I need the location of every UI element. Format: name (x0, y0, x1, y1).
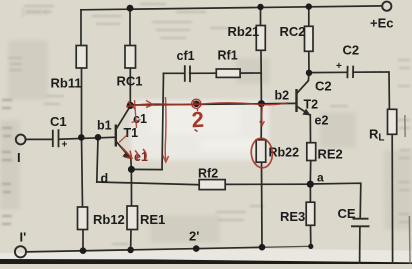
wire b2 node down to Rb22 (260, 104, 262, 140)
wire d line left segment (97, 182, 200, 185)
wire corner to cf1 (164, 72, 185, 74)
label e1 (134, 150, 148, 164)
svg-text:2': 2' (189, 229, 199, 244)
resistor RL (388, 109, 397, 134)
label I (17, 150, 21, 165)
svg-text:Rb21: Rb21 (228, 24, 260, 39)
label Rf2 (198, 167, 218, 181)
svg-text:I': I' (20, 230, 27, 245)
wire Rb11 to base node (81, 68, 83, 137)
wire emitter e1 junction right (131, 168, 162, 170)
resistor RE3 (306, 202, 315, 225)
wire base node to Rb12 (82, 137, 83, 207)
label e2 (315, 114, 329, 128)
wire node b1 down to d line (97, 137, 98, 182)
wire d line Rf2 to node o (225, 183, 310, 185)
junction dot top Rb21 (257, 4, 263, 10)
junction dot collector c1 (127, 102, 134, 109)
wire RC1 to collector node (129, 68, 131, 105)
resistor Rb11 (76, 46, 87, 69)
svg-text:Rb11: Rb11 (51, 76, 82, 91)
svg-text:b2: b2 (275, 89, 290, 103)
red annotation: check under 2 (195, 130, 198, 132)
resistor RC1 (125, 46, 136, 69)
transistor T1 (116, 107, 132, 170)
red annotation: scribble on node 2 dot (192, 99, 201, 111)
red annotation: label 2 (191, 107, 205, 133)
wire c2 node to C2 cap (309, 71, 347, 73)
svg-text:C2: C2 (343, 43, 360, 58)
svg-text:I: I (17, 150, 21, 165)
svg-text:prece: prece (21, 3, 49, 18)
label cf1 (177, 49, 195, 63)
svg-text:d: d (101, 172, 109, 186)
label T2 (304, 98, 319, 112)
svg-text:b1: b1 (97, 119, 112, 133)
svg-text:RE3: RE3 (280, 209, 305, 224)
capacitor C2 (347, 66, 353, 79)
junction dot rail RE1 (127, 247, 134, 254)
red annotation: vertical trace feedback line (163, 97, 169, 162)
junction dot top RC2 (306, 3, 312, 9)
label I' (20, 230, 27, 245)
red annotation: trace over c1-b2 wire (126, 101, 288, 110)
wire RC2 column top (308, 7, 310, 27)
resistor Rb12 (78, 207, 88, 230)
resistor Rf1 (216, 69, 240, 77)
capacitor cf1 (185, 65, 190, 82)
junction dot node b2 (258, 100, 265, 107)
wire C1 to base node b1 (59, 137, 116, 139)
wire input terminal to C1 (26, 138, 53, 140)
junction dot top RC1 (127, 5, 134, 12)
label RE2 (318, 147, 343, 162)
input terminal I' (15, 246, 26, 257)
wire RE1 to bottom rail (130, 230, 132, 250)
svg-text:T2: T2 (304, 98, 319, 112)
terminal +Ec (382, 2, 391, 11)
svg-text:C1: C1 (50, 114, 67, 129)
junction dot node o (307, 181, 314, 188)
svg-text:Rf1: Rf1 (218, 49, 238, 63)
wire Rb21 column top (260, 7, 262, 26)
red annotation: ellipse around Rb22 (250, 137, 273, 168)
wire emitter e2 to RE2 (309, 115, 311, 143)
wire node o to CE (310, 183, 361, 218)
junction dot rail 2' (193, 245, 200, 252)
svg-text:RE2: RE2 (318, 147, 343, 162)
bottom page-edge light strip (0, 249, 412, 262)
junction dot node 2 (193, 101, 200, 108)
resistor RC2 (305, 26, 314, 51)
label T1 (124, 126, 139, 140)
resistor Rf2 (199, 180, 225, 190)
resistor Rb21 (256, 26, 265, 51)
label RL (369, 127, 385, 144)
wire cf1 to Rf1 (190, 72, 217, 74)
wire Rf1 to b2 node (240, 72, 261, 74)
label b1 (97, 119, 112, 133)
label Rb21 (228, 24, 260, 39)
label +Ec (370, 16, 394, 31)
wire Rb11 column top (80, 10, 82, 46)
svg-text:RC2: RC2 (280, 24, 306, 39)
svg-text:Rb12: Rb12 (93, 212, 125, 227)
junction dot base b1 right (95, 134, 102, 141)
wire C2 cap to RL corner (353, 72, 389, 109)
svg-text:e2: e2 (315, 114, 329, 128)
label plus C2 (336, 61, 342, 72)
svg-text:C2: C2 (315, 79, 332, 94)
label CE (338, 206, 356, 221)
label Rb22 (269, 146, 300, 160)
svg-text:T1: T1 (124, 126, 139, 140)
label c2 (315, 79, 332, 94)
red annotation: trace down to Rb22 (260, 105, 265, 126)
label RE3 (280, 209, 305, 224)
transistor T2 (297, 73, 311, 116)
wire collector c1 to base b2 (130, 103, 296, 105)
bottom rail wire (26, 246, 312, 252)
label plus C1 (62, 140, 68, 151)
wire Rb12 to bottom rail (82, 230, 84, 251)
wire CE to bottom edge (359, 226, 361, 264)
wire e1 junction down to RE1 (130, 169, 132, 206)
label c1 (133, 112, 147, 126)
bottom page-edge dark band (0, 259, 412, 264)
red annotation: arrow near e1 (121, 147, 146, 160)
svg-text:RE1: RE1 (140, 212, 165, 227)
junction dot rail Rb22 (259, 244, 266, 251)
wire node o to RE3 (309, 184, 311, 202)
label C2 cap (343, 43, 360, 58)
capacitor C1 (53, 129, 59, 147)
faint bleed text top-left (21, 3, 49, 18)
input terminal I (16, 135, 26, 145)
label RE1 (140, 212, 165, 227)
wire RE2 to node o (309, 161, 311, 185)
svg-text:Rf2: Rf2 (198, 167, 218, 181)
label d (101, 172, 109, 186)
resistor RE1 (127, 206, 138, 230)
label Rb12 (93, 212, 125, 227)
label Rf1 (218, 49, 238, 63)
resistor RE2 (307, 143, 316, 161)
label C1 (50, 114, 67, 129)
page edge mark right upper (404, 115, 406, 137)
svg-text:+Ec: +Ec (370, 16, 394, 31)
junction dot rail Rb12 (80, 247, 87, 254)
resistor Rb22 (256, 140, 266, 162)
svg-text:RC1: RC1 (117, 74, 143, 89)
junction dot rail RE3 (308, 244, 313, 249)
junction dot emitter e1 (128, 166, 135, 173)
wire RE3 to bottom rail (310, 225, 312, 246)
wire RC2 to c2 node (308, 51, 310, 73)
label Rb11 (51, 76, 82, 91)
label 2' (189, 229, 199, 244)
wire feedback riser e1 to cf1 (162, 73, 164, 169)
page edge vertical line right (408, 216, 411, 264)
label node a (317, 171, 324, 185)
label RC2 (280, 24, 306, 39)
svg-text:cf1: cf1 (177, 49, 195, 63)
top supply rail wire (81, 6, 382, 10)
label RC1 (117, 74, 143, 89)
wire RL to bottom edge (391, 134, 393, 264)
capacitor CE (351, 219, 370, 227)
label b2 (275, 89, 290, 103)
light highlighted region around node 2 (131, 100, 269, 160)
svg-text:CE: CE (338, 206, 356, 221)
wire Rb22 to bottom rail (261, 162, 264, 247)
junction dot node c2 (306, 70, 312, 76)
junction dot base b1 left (78, 134, 85, 141)
red annotation: tick over T1 (119, 135, 128, 143)
wire Rb21 to b2 node (260, 50, 262, 103)
wire RC1 column top (129, 8, 131, 45)
red annotation: marks near c1 (132, 100, 141, 128)
svg-text:a: a (317, 171, 324, 185)
svg-text:+: + (336, 61, 342, 72)
svg-text:+: + (62, 140, 68, 151)
